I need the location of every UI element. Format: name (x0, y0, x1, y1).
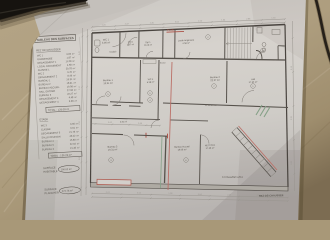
svg-text:m²: m² (76, 126, 79, 129)
svg-text:3.06 m²: 3.06 m² (102, 41, 110, 44)
svg-text:22.27 m²: 22.27 m² (210, 79, 220, 82)
svg-text:190.62 m²: 190.62 m² (61, 168, 72, 172)
svg-text:m²: m² (74, 92, 77, 95)
svg-text:4.58 m²: 4.58 m² (182, 42, 190, 45)
svg-text:64.10: 64.10 (160, 63, 166, 65)
svg-text:m²: m² (73, 71, 76, 74)
svg-text:m²: m² (73, 74, 76, 77)
svg-text:m²: m² (73, 67, 76, 70)
svg-text:m²: m² (74, 96, 77, 99)
svg-text:15.80: 15.80 (70, 139, 77, 142)
svg-text:m²: m² (77, 146, 80, 149)
svg-text:11.08 m²: 11.08 m² (144, 44, 152, 47)
svg-text:21.45: 21.45 (70, 147, 77, 150)
svg-text:Couloir: Couloir (109, 50, 116, 53)
svg-text:m²: m² (76, 122, 79, 125)
svg-text:3.81 m²: 3.81 m² (120, 120, 127, 123)
svg-text:272.78 m²: 272.78 m² (62, 189, 73, 193)
svg-text:19.31 m²: 19.31 m² (108, 148, 118, 151)
svg-text:PLANCHER: PLANCHER (44, 190, 59, 195)
svg-text:P 2.05: P 2.05 (167, 29, 175, 32)
svg-text:22.02: 22.02 (70, 143, 77, 146)
svg-text:ETAGE: ETAGE (39, 117, 48, 121)
svg-text:19.08 m²: 19.08 m² (177, 148, 186, 151)
svg-text:m²: m² (76, 134, 79, 137)
svg-text:m²: m² (72, 56, 75, 59)
svg-text:m²: m² (72, 60, 75, 63)
svg-text:m²: m² (72, 53, 75, 56)
svg-text:Gard.: Gard. (128, 40, 134, 43)
svg-text:m²: m² (77, 138, 80, 141)
svg-text:27.08 m²: 27.08 m² (206, 147, 215, 150)
svg-text:1.87 m²: 1.87 m² (127, 43, 134, 46)
svg-text:m²: m² (74, 100, 77, 103)
svg-text:45.22: 45.22 (69, 135, 76, 138)
svg-text:m²: m² (74, 85, 77, 88)
svg-text:3.35: 3.35 (70, 123, 75, 126)
svg-text:CUISINE: CUISINE (41, 128, 51, 132)
svg-text:C.C Dess/Réf 1-25 A: C.C Dess/Réf 1-25 A (222, 176, 243, 179)
svg-text:m²: m² (73, 78, 76, 81)
svg-text:5.38: 5.38 (69, 100, 74, 103)
svg-text:Bureau Accueil: Bureau Accueil (174, 145, 190, 149)
svg-text:REZ-DE-CHAUSSEE: REZ-DE-CHAUSSEE (259, 193, 284, 198)
svg-text:WC 3: WC 3 (41, 124, 48, 127)
svg-text:21.76: 21.76 (69, 131, 76, 134)
svg-text:PL 38.6/7.81: PL 38.6/7.81 (205, 105, 217, 107)
svg-text:HABITABLE: HABITABLE (43, 169, 58, 174)
svg-text:m²: m² (74, 89, 77, 92)
svg-text:m²: m² (73, 63, 76, 66)
svg-text:6.91: 6.91 (70, 127, 75, 130)
svg-text:6.58 m²: 6.58 m² (147, 81, 155, 84)
svg-text:m²: m² (77, 142, 80, 145)
svg-text:19.31 m²: 19.31 m² (103, 82, 113, 85)
svg-text:27.93 m²: 27.93 m² (249, 81, 258, 84)
svg-text:m²: m² (73, 81, 76, 84)
svg-text:m²: m² (76, 130, 79, 133)
